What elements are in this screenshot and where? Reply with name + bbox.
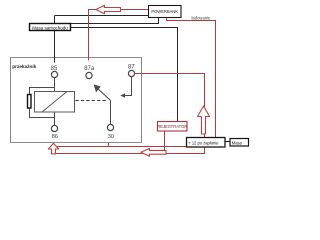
powerbank U2 xyxy=(149,6,182,18)
wire resistor bottom return xyxy=(30,108,55,118)
svg-text:przekaźnik: przekaźnik xyxy=(12,64,36,69)
pin 87a xyxy=(86,72,92,78)
node Masa samochodu xyxy=(30,24,71,31)
arrow current flow left along bottom rail xyxy=(141,148,166,156)
svg-text:85: 85 xyxy=(51,66,58,72)
svg-text:30: 30 xyxy=(108,134,114,140)
svg-text:REJESTRATOR: REJESTRATOR xyxy=(157,124,187,129)
relay K1 body xyxy=(11,58,142,143)
arrow current flow up from +12 xyxy=(198,106,210,134)
node +12 po zaplonie xyxy=(187,138,226,148)
wire red from pin 87 to +12 box xyxy=(135,74,205,139)
wire upper ground rail to powerbank bottom xyxy=(71,18,159,24)
svg-text:POWERBANK: POWERBANK xyxy=(151,9,178,14)
pin 87 xyxy=(128,70,134,76)
svg-text:87: 87 xyxy=(128,65,135,71)
wire L1 ground to powerbank left xyxy=(55,15,149,17)
pin 85 xyxy=(51,71,57,77)
coil L1 xyxy=(35,92,75,113)
dashed actuator link xyxy=(76,100,107,102)
svg-text:+ 12 po zapłonie: + 12 po zapłonie xyxy=(188,141,219,146)
wire red rail from pin 86 arrow to +12 box bottom xyxy=(56,147,205,154)
wire +12 to masa connector xyxy=(225,141,230,143)
wire coil to pin 86 xyxy=(54,112,56,125)
arrow current flow to powerbank (left) xyxy=(96,5,121,14)
svg-text:Masa samochodu: Masa samochodu xyxy=(32,25,68,30)
wire red ladowanie from powerbank xyxy=(167,18,216,139)
svg-text:86: 86 xyxy=(52,134,58,140)
wire lower ground rail to rejestrator xyxy=(71,28,178,122)
wire contact 87 stem with arrowhead xyxy=(120,77,131,98)
pin 30 xyxy=(107,124,113,130)
wire switch stem from pin 30 xyxy=(110,101,112,125)
wire red drop from pin 30 xyxy=(108,143,110,147)
resistor R1 xyxy=(28,95,32,109)
wire resistor branch xyxy=(30,88,55,95)
switch arm with arrowhead toward 87a xyxy=(94,84,111,100)
arrow current flow up to pin 86 xyxy=(48,143,58,154)
svg-text:87a: 87a xyxy=(84,66,95,72)
pin 86 xyxy=(51,125,57,131)
svg-text:Masa: Masa xyxy=(232,141,243,146)
wire red powerbank charge line xyxy=(89,10,149,61)
wire red rejestrator supply drop xyxy=(164,131,166,154)
rejestrator U3 xyxy=(157,122,187,132)
node Masa xyxy=(230,139,249,147)
wire ground vertical to pin 85 xyxy=(54,16,56,63)
wire coil from pin 85 xyxy=(54,78,56,92)
svg-text:ładowanie: ładowanie xyxy=(192,15,212,20)
wire red rail from pin 86 arrow to +12 box left xyxy=(57,146,187,148)
